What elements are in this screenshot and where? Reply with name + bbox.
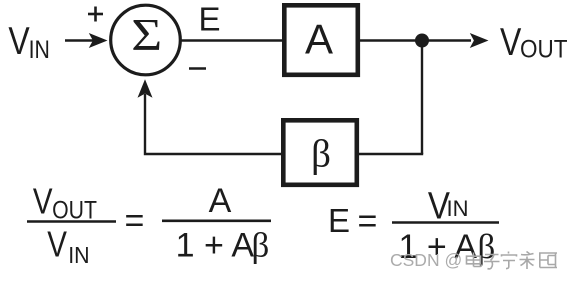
svg-text:=: = [125,202,145,240]
eq1 fraction bar left [27,220,116,223]
wire node to output arrow [422,39,471,41]
svg-text:V: V [8,19,30,63]
sigma symbol [131,10,162,60]
watermark chinese glyphs [467,252,558,270]
label V_IN [8,19,49,63]
node junction dot [415,34,429,48]
arrowhead input [89,33,108,48]
wire right to beta block [357,153,423,155]
glyph dian [467,253,482,267]
arrowhead feedback up [138,79,153,97]
wire summer to block A [181,39,284,41]
eq2 numerator V_IN [428,184,469,227]
equation 1 numerator V_OUT [33,181,97,224]
svg-text:A: A [305,16,333,63]
glyph cai [520,252,535,270]
svg-text:V: V [500,20,522,64]
wire input to summer [65,39,93,41]
svg-text:E: E [199,1,221,38]
eq2 denominator 1 + A beta [399,227,496,266]
svg-text:β: β [252,225,270,264]
svg-text:E: E [328,202,350,239]
svg-text:Σ: Σ [131,10,162,60]
svg-text:1 + A: 1 + A [176,226,255,264]
label V_OUT [500,20,567,64]
svg-text:IN: IN [29,35,50,63]
glyph ning [502,252,517,269]
block A [284,5,358,75]
wire beta to left corner [145,94,283,154]
svg-text:A: A [209,182,232,220]
eq1 denominator V_IN [47,223,89,267]
svg-text:β: β [311,132,331,175]
arrowhead output [470,33,489,48]
eq2 fraction bar [392,221,499,224]
svg-text:OUT: OUT [52,196,97,224]
glyph zi [484,255,500,269]
plus sign [88,7,103,22]
eq1 fraction bar right [162,220,271,223]
svg-text:IN: IN [68,242,89,268]
svg-text:CSDN @: CSDN @ [390,250,462,270]
block beta [283,120,357,185]
summing junction circle [111,5,181,75]
svg-text:OUT: OUT [520,36,567,64]
wire block A to node [358,39,422,41]
glyph chen [539,253,557,268]
svg-text:IN: IN [447,196,469,221]
svg-text:V: V [47,223,67,263]
eq1 denominator 1 + A beta [176,225,270,264]
svg-text:=: = [358,202,378,240]
wire node down [421,41,423,155]
svg-text:V: V [33,181,53,221]
minus sign [189,67,206,70]
